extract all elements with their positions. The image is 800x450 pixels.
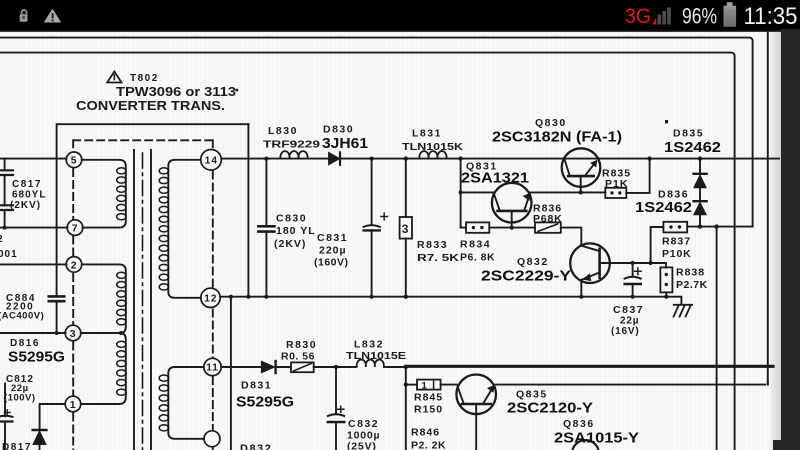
junction C884/pin3 wire — [55, 331, 59, 335]
capacitor C830 — [258, 159, 315, 297]
secondary winding pins 14-12 — [168, 160, 201, 298]
junction Q831 base row — [510, 226, 514, 230]
wire R835 to rail — [626, 159, 649, 193]
signal bars — [652, 8, 671, 25]
transformer pin 12 — [201, 288, 220, 307]
resistor R836 — [533, 203, 562, 233]
resistor R834 — [460, 222, 495, 263]
wire left row to pin7 — [0, 227, 68, 229]
junction rail / D835 — [698, 156, 702, 160]
transistor Q831 — [461, 161, 532, 228]
wire top rail (pin14 output) — [221, 158, 779, 160]
inductor L831 — [402, 128, 463, 159]
junction emitter row — [459, 190, 463, 194]
junction L832 out — [404, 365, 408, 369]
transistor Q832 — [481, 243, 610, 296]
primary winding pins 2-3-1 — [81, 264, 126, 404]
wire shield loop right drop — [247, 124, 249, 297]
inductor L830 — [263, 125, 320, 158]
junction R833 bottom bus — [404, 295, 408, 299]
junction L831 right — [458, 156, 462, 160]
wire left row to pin3 — [0, 332, 66, 334]
secondary winding pins 11-nc — [168, 367, 204, 439]
wire D836 row — [687, 226, 752, 228]
wire drop x231 — [230, 297, 232, 450]
capacitor C884 — [0, 293, 64, 333]
resistor R838 — [660, 267, 707, 297]
wire pin11 row — [221, 366, 406, 368]
wire Q830 base to Q831 / R835 — [530, 191, 606, 193]
wire pin3 to winding tap — [81, 332, 121, 334]
junction winding tap pin3 — [119, 331, 123, 335]
transformer pin 14 — [201, 150, 222, 171]
wire L831 junction down — [460, 159, 462, 228]
junction C817/pin7 wire — [3, 226, 7, 230]
junction page-edge wire — [714, 224, 718, 228]
warning icon — [44, 9, 62, 23]
junction C832 node — [334, 365, 338, 369]
svg-text:3G: 3G — [625, 5, 651, 28]
wire left row to pin2 — [0, 263, 67, 265]
wire bottom bus pin12 — [220, 296, 666, 298]
transistor Q836 (partially visible) — [554, 418, 639, 450]
ground symbol — [666, 297, 692, 317]
transformer unnumbered pin — [204, 431, 220, 447]
transistor Q835 — [456, 375, 593, 450]
capacitor C812 — [0, 374, 36, 450]
wire R846 drop — [405, 367, 407, 450]
diode D831 — [236, 361, 294, 411]
junction C830 top — [264, 157, 268, 161]
svg-text:96%: 96% — [682, 3, 717, 28]
wire R845 to Q835 — [441, 384, 457, 386]
diode D835 — [664, 128, 721, 202]
warning triangle T802 marker — [107, 72, 121, 83]
transformer pin 3 — [65, 325, 81, 341]
resistor R830 — [281, 339, 317, 372]
junction C831 bottom — [370, 295, 374, 299]
stray mark — [665, 120, 668, 123]
transformer pin 1 — [65, 396, 81, 412]
page border outer line — [0, 38, 753, 227]
junction R833 top rail — [404, 156, 408, 160]
junction shield drop / bottom bus — [246, 295, 250, 299]
junction C837 bus — [631, 295, 635, 299]
dashed pin column right — [212, 140, 214, 450]
wire left row to pin5 — [0, 158, 67, 160]
resistor R845 (fusible, marked 1) — [414, 380, 443, 416]
junction base/R837 — [649, 261, 653, 265]
adjacent page edge line — [767, 32, 769, 385]
transistor Q830 — [492, 117, 622, 192]
junction C830 bottom — [264, 295, 268, 299]
lock icon — [20, 10, 28, 22]
junction Q830 base — [579, 190, 583, 194]
junction bus x231 — [229, 295, 233, 299]
junction base/C837 — [631, 261, 635, 265]
junction R838 bus — [664, 295, 668, 299]
wire to R845 — [406, 384, 417, 386]
transformer T802 dashed enclosure — [73, 139, 213, 141]
wire R837 left down to base row — [651, 227, 664, 263]
wire base row — [461, 228, 582, 246]
capacitor C832 (electrolytic) — [328, 367, 381, 450]
resistor R837 — [662, 222, 691, 260]
junction R835 rail — [647, 156, 651, 160]
wire shield loop top — [57, 124, 249, 296]
junction Q832 emitter bus — [579, 295, 583, 299]
primary winding pins 5-7 — [82, 160, 126, 228]
dashed pin column left — [72, 140, 74, 450]
transformer pin 5 — [66, 152, 82, 168]
resistor R835 — [602, 168, 631, 199]
transformer pin 11 — [204, 358, 221, 375]
wire vertical right drop — [716, 227, 718, 450]
photo top edge — [0, 30, 800, 32]
wire Q835 collector row — [496, 380, 768, 385]
wire Q831 emitter row — [461, 191, 494, 193]
junction D836 bottom — [698, 224, 702, 228]
resistor R833 (fusible, marked 3) — [400, 159, 460, 297]
wire output bus thick — [406, 365, 773, 368]
status bar — [0, 0, 800, 30]
photo right dark edge — [781, 29, 800, 450]
wire pin1 to D817 — [40, 404, 65, 429]
diode D836 — [635, 189, 707, 227]
stray mark after 3113 — [236, 89, 239, 92]
capacitor C837 (electrolytic) — [611, 263, 644, 337]
transformer core — [134, 150, 151, 450]
battery icon — [724, 2, 737, 27]
diode D817 — [2, 430, 46, 450]
junction C831 top — [370, 157, 374, 161]
junction R845 node — [404, 383, 408, 387]
transformer pin 2 — [66, 257, 82, 273]
capacitor C831 (electrolytic) — [314, 159, 388, 297]
transformer pin 7 — [67, 220, 83, 236]
capacitor C817 — [0, 159, 46, 228]
svg-text:11:35: 11:35 — [744, 3, 798, 30]
diode D830 — [322, 124, 368, 165]
wire Q832 base row — [600, 263, 666, 267]
inductor L832 — [346, 339, 406, 367]
